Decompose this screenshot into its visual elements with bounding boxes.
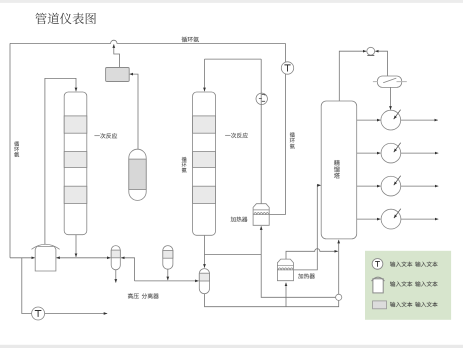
wire: heater2 top line with hop joining riser [286,249,338,259]
label 高压分离器 [128,293,159,298]
wire: into granulator right [56,257,76,259]
legend gray box symbol [373,301,387,309]
wire: mid capsule up into gray box right [130,74,138,149]
pump/compressor P4 [381,209,401,229]
pump/compressor P3 [381,176,401,196]
HP separator capsule 3 [199,269,209,294]
reaction column 2 [193,92,216,235]
heat exchanger drum [377,76,401,87]
mid capsule vessel [129,149,146,200]
reaction column 1 [64,92,87,235]
wire: into granulator left [10,257,35,259]
wire: separator to pump4 [357,218,381,220]
wire: separator top to pump0 [339,51,366,101]
title 管道仪表图 [35,13,96,25]
wire: feed into column2 top [204,59,206,91]
wire: heater2 right up into separator left [294,185,321,270]
wire: pump3 outlet [401,185,439,187]
wire: separator to pump2 [357,152,381,154]
pump/compressor P2 [381,143,401,163]
wire: heater2 bottom feed [285,283,287,307]
junction connector circle [336,294,342,300]
wire: pump1 outlet [401,119,438,121]
label 一次反应 (column2) [225,133,248,138]
wire: top recycle header with hop [10,40,285,43]
heater 1 [253,204,269,226]
gray process box [106,68,130,82]
wire: header down through T to heater1 right [269,43,285,214]
wire: pump4 outlet [401,218,439,220]
legend vessel symbol [373,279,383,293]
legend row 2 text [390,281,438,286]
separator column [321,101,357,239]
legend row 1 text [390,261,438,266]
wire: y59 branch line [205,58,262,60]
label 循环氨 (top header) [182,37,199,42]
wire: gray box top line, arrow to header [114,44,120,67]
wire: separator to pump3 [357,185,381,187]
label 加热器 (heater1) [231,217,248,222]
wire: junction circle to heater1 bottom riser [261,226,335,297]
instrument T (top), offset right of wire [281,62,293,74]
wire: bottom header capsule3 to junction circle [205,294,339,307]
wire: granulator top riser into column1 top [45,78,76,244]
wire: low header into capsule3 left [135,280,199,282]
bottom gray strip [0,345,463,348]
instrument C (transparent, wire shows through) [256,93,267,104]
pump/compressor P1 [381,110,401,130]
wire: cross branch y254.6 [205,254,262,256]
wire: capsule1 bottom vent [115,270,117,283]
small pump P0 top right [367,47,375,55]
wire: capsule1 right side link [121,258,134,281]
wire: pump0 right to heat exchanger [375,51,387,76]
wire: capsule2 bottom drain [167,269,169,280]
label 循环氨 (right, vertical) [290,132,295,148]
label 一次反应 (column1) [94,133,117,138]
label 加热器 (heater2) [298,273,315,278]
wire: HX bottom into pump1 top [390,87,392,109]
label 循环氨 (left, vertical) [14,141,19,157]
heater 2 [277,259,293,281]
wire: separator to pump1 [357,119,381,121]
legend panel [365,251,451,320]
top gray strip [0,0,463,3]
wire: junction up into separator bottom [338,240,340,294]
instrument T (bottom left) [32,307,45,320]
label 循环氨 (mid, vertical) [182,157,187,173]
wire: tap down to T instrument and outlet arrow [22,258,107,314]
HP separator capsule 1 [111,246,120,270]
legend instrument symbol [372,259,383,270]
wire: column1 bottom drain [75,235,77,257]
label 精馏塔 (vertical) [334,160,340,179]
wire: left drop [9,43,11,257]
HP separator capsule 2 [163,246,173,270]
wire: pump2 outlet [401,152,439,154]
legend row 3 text [390,302,438,307]
granulator vessel with spray arc [35,246,56,271]
wire: drop through C instrument to heater1 top [260,59,262,204]
wire: into capsule1 left [76,257,111,259]
wire: column2 bottom into capsule3 top [204,235,206,267]
